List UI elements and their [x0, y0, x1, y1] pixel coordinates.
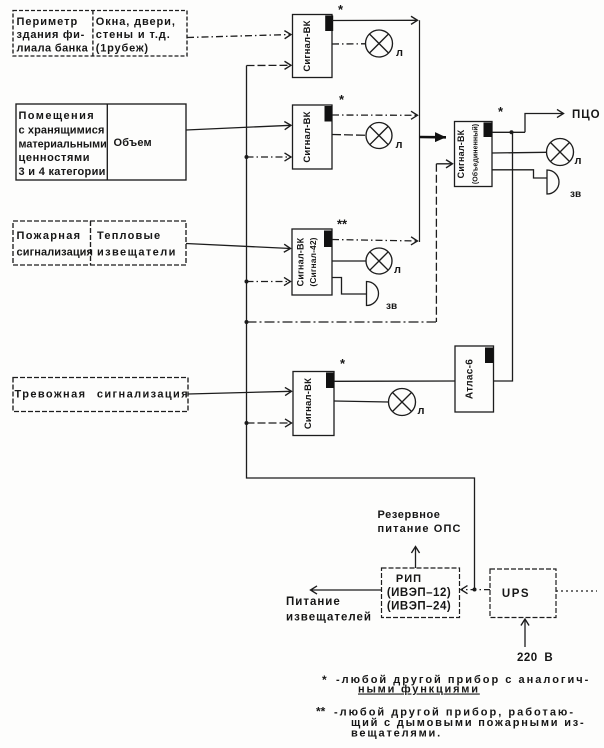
wire: U2 to lamp HL2	[332, 134, 366, 137]
wire: Тепловые извещатели to U3 input 1	[186, 244, 291, 249]
block POMESHCHENIYA (Помещения с хранящимися ценностями | Объем)	[16, 104, 186, 180]
svg-text:л: л	[396, 139, 403, 151]
junction at Атлас line and ПЦО line	[510, 130, 514, 134]
lamp HL4	[389, 389, 416, 416]
svg-text:(ИВЭП–12): (ИВЭП–12)	[387, 587, 451, 599]
wire: power bus branch to U3 input 2 (dash-dot)	[247, 281, 291, 283]
lamp HL5 (output)	[547, 139, 574, 166]
svg-text:вещателями.: вещателями.	[351, 728, 442, 740]
wire: U5 to sounder BA2	[492, 170, 547, 178]
svg-text:л: л	[418, 405, 425, 417]
svg-text:(1рубеж): (1рубеж)	[96, 43, 149, 55]
sounder BA1 (зв at U3)	[367, 282, 379, 306]
svg-text:лиала банка: лиала банка	[17, 43, 89, 55]
lamp HL3	[366, 248, 392, 274]
svg-text:с хранящимися: с хранящимися	[19, 125, 105, 137]
label Пожарная сигнализация	[17, 230, 94, 259]
svg-text:Тревожная сигнализация: Тревожная сигнализация	[15, 389, 190, 401]
svg-text:Сигнал-ВК: Сигнал-ВК	[302, 111, 313, 162]
block PERIMETR (Периметр здания филиала банка | Окна, двери, стены)	[13, 11, 187, 57]
svg-text:Помещения: Помещения	[19, 110, 96, 122]
svg-text:**: **	[337, 217, 348, 232]
svg-text:Тепловые: Тепловые	[97, 230, 161, 242]
svg-text:Атлас-6: Атлас-6	[465, 359, 476, 399]
wire: power bus branch to U4 input 2	[247, 422, 292, 424]
device U4 Сигнал-ВК (bottom)	[293, 372, 334, 436]
svg-text:Сигнал-ВК: Сигнал-ВК	[302, 20, 313, 71]
wire: up and right to ПЦО	[525, 114, 564, 133]
svg-text:*: *	[498, 104, 504, 119]
junction on left bus at y322	[245, 320, 249, 324]
wire: Атлас-6 output up to node at U5	[494, 132, 513, 381]
svg-text:Сигнал-ВК: Сигнал-ВК	[303, 378, 314, 429]
wire: 220 В arrow up into UPS	[524, 619, 526, 647]
label Окна двери стены (1рубеж)	[96, 16, 176, 55]
svg-text:стены и т.д.: стены и т.д.	[96, 29, 171, 41]
svg-text:л: л	[394, 264, 401, 276]
block TREVOZHNAYA (Тревожная сигнализация)	[13, 378, 188, 412]
svg-text:Сигнал-ВК: Сигнал-ВК	[456, 129, 466, 178]
svg-text:**: **	[316, 705, 326, 719]
svg-text:Сигнал-ВК: Сигнал-ВК	[296, 237, 306, 286]
device U2 Сигнал-ВК (second)	[293, 105, 333, 169]
wire: left power bus vertical + bottom run to RIP	[247, 66, 475, 590]
wire: UPS to RIP (dash-dot, arrow left)	[461, 589, 490, 591]
svg-text:(ИВЭП–24): (ИВЭП–24)	[387, 601, 451, 613]
label Периметр здания филиала банка	[17, 16, 89, 55]
junction where bus meets UPS-RIP wire	[473, 588, 477, 592]
svg-text:220 В: 220 В	[517, 652, 553, 664]
lamp HL1 (top)	[366, 30, 393, 57]
wire: U3 top output to bus 1 (dash-dot)	[332, 240, 418, 242]
svg-text:UPS: UPS	[502, 588, 530, 600]
wire: UPS right dash-dot stub	[556, 590, 597, 592]
wire: power bus branch to U2 input 2 (dash-dot)	[247, 156, 292, 158]
svg-text:(Объединенный): (Объединенный)	[472, 124, 480, 184]
svg-text:Пожарная: Пожарная	[17, 230, 82, 242]
svg-text:зв: зв	[570, 189, 581, 200]
wire: RIP left arrow Питание извещателей	[311, 589, 382, 591]
wire: U3 to sounder BA1	[332, 278, 367, 295]
wire: U4 top output to Атлас-6	[334, 380, 455, 382]
svg-text:зв: зв	[386, 301, 397, 312]
junction on bus at U2 branch	[245, 155, 249, 159]
svg-text:Периметр: Периметр	[17, 16, 79, 28]
svg-text:л: л	[575, 155, 582, 167]
svg-text:(Сигнал-42): (Сигнал-42)	[308, 237, 318, 286]
svg-text:Объем: Объем	[114, 137, 152, 149]
svg-text:здания фи-: здания фи-	[17, 29, 86, 41]
svg-text:*: *	[340, 356, 346, 371]
svg-text:извещатели: извещатели	[97, 247, 177, 259]
svg-text:материальными: материальными	[19, 139, 107, 151]
wire: U5 output to ПЦО branch	[492, 131, 525, 133]
svg-text:ПЦО: ПЦО	[572, 109, 601, 121]
wire: bus 1 thick arrow into U5 input 1	[420, 136, 447, 139]
wire: collector bus 1 vertical	[419, 20, 421, 242]
svg-text:*: *	[322, 673, 327, 687]
junction on bus at U3 branch	[245, 280, 249, 284]
wire: bus 2 vertical (dashed)	[435, 164, 437, 322]
svg-text:*: *	[339, 92, 345, 107]
label Тепловые извещатели	[97, 230, 177, 259]
svg-text:РИП: РИП	[396, 573, 422, 585]
svg-text:ценностями: ценностями	[19, 152, 91, 164]
device RIP РИП (ИВЭП-12)(ИВЭП-24)	[382, 568, 460, 618]
svg-text:Резервное: Резервное	[378, 509, 441, 521]
device UPS	[490, 569, 556, 618]
label Резервное питание ОПС	[378, 509, 462, 535]
wire: horizontal connector to bus 2 (dash-dot)	[247, 321, 437, 323]
wire: power bus branch to U1 input 2	[247, 64, 292, 66]
wire: bus 2 arrow into U5 input 2	[436, 163, 452, 165]
wire: U1 to lamp HL1 (dash-dot)	[332, 43, 366, 45]
footnote text 2	[334, 707, 586, 740]
wire: U4 to lamp HL4	[334, 401, 389, 402]
wire: U3 to lamp HL3	[332, 260, 366, 262]
wire: Объем block to U2 input 1	[186, 125, 291, 130]
svg-text:*: *	[338, 2, 344, 17]
wire: Тревожная block to U4 input 1	[188, 391, 292, 394]
sounder BA2 (зв at U5)	[547, 170, 559, 194]
lamp HL2	[366, 123, 392, 149]
svg-text:3 и 4 категории: 3 и 4 категории	[19, 166, 106, 178]
label Питание извещателей	[286, 596, 372, 624]
device U1 Сигнал-ВК (top)	[293, 15, 334, 78]
block POZHARNAYA (Пожарная сигнализация | Тепловые извещатели)	[13, 221, 186, 265]
wire: U2 top output to bus 1 (dash-dot)	[332, 114, 418, 116]
svg-text:л: л	[396, 47, 403, 59]
wire: U5 to lamp HL5	[492, 151, 546, 154]
svg-text:ными функциями: ными функциями	[358, 684, 480, 696]
svg-text:питание ОПС: питание ОПС	[378, 523, 462, 535]
device U5 Сигнал-ВК Объединенный	[455, 122, 493, 187]
svg-text:извещателей: извещателей	[286, 612, 372, 624]
svg-text:сигнализация: сигнализация	[17, 247, 94, 259]
svg-text:Окна, двери,: Окна, двери,	[96, 16, 176, 28]
device U3 Сигнал-ВК (Сигнал-42)	[292, 229, 332, 295]
junction on bus at U4 branch	[245, 421, 249, 425]
svg-text:Питание: Питание	[286, 596, 341, 608]
wire: Периметр block to U1 input 1 (dash-dot)	[187, 35, 291, 38]
footnote text 1	[336, 674, 590, 696]
device U6 Атлас-6	[455, 346, 494, 412]
wire: RIP up arrow to Резервное питание ОПС	[415, 547, 417, 569]
label Помещения с хранящимися материальными ценностями	[19, 110, 107, 178]
wire: U1 top output to collector bus 1	[332, 19, 418, 21]
